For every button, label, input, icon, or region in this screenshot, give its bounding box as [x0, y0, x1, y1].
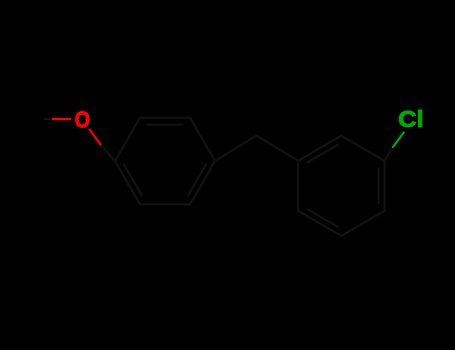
double bond inner left ring lower-right: [189, 165, 207, 195]
benzene ring right: [298, 136, 385, 236]
double bond inner left ring top: [148, 124, 183, 126]
bond C-Cl gray half: [385, 147, 393, 161]
svg-text:Cl: Cl: [398, 106, 424, 132]
bond CH3-O red half: [53, 118, 70, 120]
bond CH2 bridge: [215, 136, 298, 162]
benzene ring left: [115, 118, 215, 205]
double bond inner left ring lower-left: [124, 165, 142, 195]
wire CH3-O gray half: [45, 118, 53, 120]
double bond inner right ring upper-left: [308, 145, 338, 163]
svg-text:O: O: [75, 107, 91, 133]
bond O-C1 gray half: [101, 145, 116, 162]
double bond inner right ring lower-left: [308, 209, 338, 227]
bond O-C1 red half: [90, 130, 101, 145]
bond C-Cl green half: [393, 133, 404, 148]
double bond inner right ring right-vertical: [378, 168, 380, 203]
